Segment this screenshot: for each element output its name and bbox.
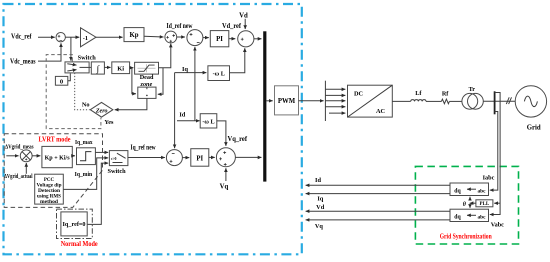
wire Iq_ref=0 to switch2 [87,163,108,224]
converter block DC/AC [348,85,393,117]
wire 0 to switch [68,74,71,81]
wire Lf to Rf [426,100,441,102]
wire PWM to gate bus [299,100,324,102]
wire saturation to switch2 [95,151,108,153]
summing junction S3 [238,31,254,47]
wire PCC detection to switch2 control [63,158,108,190]
wire Ki to dead zone [130,67,134,69]
svg-text:Id_ref new: Id_ref new [167,23,193,30]
svg-text:Grid Synchronization: Grid Synchronization [440,233,492,240]
svg-text:Iabc: Iabc [483,174,495,181]
wire Vq up to S5 [225,168,227,181]
svg-text:Vq: Vq [220,183,229,190]
grid synchronization boundary (green dashed) [415,166,518,244]
grid source circle [515,86,546,117]
wire PI2 to S5 [209,156,215,158]
svg-text:Detection: Detection [38,189,60,194]
svg-text:dq: dq [454,214,461,220]
svg-text:Dead: Dead [140,74,154,81]
svg-text:θ: θ [463,202,467,208]
decision diamond Zero [90,102,113,117]
PCC busbar [494,91,496,114]
wire dotted switch to Zero [75,73,90,110]
summing junction S2 [187,30,203,46]
svg-text:PLL: PLL [480,202,490,207]
svg-text:Grid: Grid [527,125,541,132]
svg-text:Id: Id [179,111,185,118]
svg-text:Kp + Ki/s: Kp + Ki/s [45,156,71,162]
cross-coupling block -wL1 [208,66,230,81]
svg-text:c>0: c>0 [111,157,117,161]
gate signal arrow 1 [325,88,345,90]
svg-text:-ω L: -ω L [202,118,214,125]
svg-text:ΔVgrid_meas: ΔVgrid_meas [5,143,34,150]
switch2 block (LVRT selector) [109,151,128,166]
wire Iq output [306,193,450,195]
wire Iabc tap from busbar [490,112,498,191]
wire Id output [306,184,450,186]
gain block -1 (triangle) [81,28,97,47]
svg-text:Switch: Switch [78,54,97,61]
saturation block [77,148,96,165]
wire switch2 to S4 [128,157,165,159]
inductor Lf [411,100,426,102]
svg-text:Vd: Vd [316,204,325,211]
summing junction S5 (q-axis output) [216,148,235,167]
svg-text:Kp: Kp [129,32,138,39]
wire Ki branch to comparator [132,68,136,94]
gate signal arrow 3 [325,100,345,102]
wire Iq to -wL1 [175,72,207,74]
wire Kp+Ki/s to saturation [72,155,75,157]
summing junction S4 (q-axis error) [166,150,182,166]
PI controller q-axis [191,149,209,167]
wire Id to -wL2 [177,120,200,122]
wire S4 to PI2 [182,157,189,159]
switch block (dc-loop) [65,62,89,73]
dead zone label [140,74,154,88]
svg-text:LVRT mode: LVRT mode [39,136,71,143]
svg-text:Voltage dip: Voltage dip [37,183,62,188]
dead zone block [135,62,159,74]
wire Vgrid_actual up to multiplier [25,163,27,174]
svg-text:Rf: Rf [442,90,449,97]
wire -wL1 up to S3 [230,48,245,73]
wire multiplier to Kp+Ki/s [32,155,40,157]
wire -wL2 down to S5 [217,121,226,146]
svg-text:AC: AC [376,108,386,115]
svg-text:PI: PI [196,156,203,163]
PCC voltage dip detection block [35,174,64,205]
svg-text:No: No [82,101,90,108]
wire S5 to reference bus [235,156,261,158]
svg-text:Vabc: Vabc [491,221,504,228]
wire theta up to dq1 [469,197,471,200]
abc-to-dq block currents [450,183,489,196]
three-phase slashes [506,97,511,104]
wire Kp to sum S1 [144,35,164,38]
svg-text:Iq_ref new: Iq_ref new [131,144,156,151]
controller boundary box (cyan dash-dot) [4,4,302,254]
wire dead-zone branch to comparator [158,68,163,95]
summing junction S0 [56,33,65,42]
wire S3 to reference bus [254,38,262,40]
wire Vdc_ref to sum S0 [38,36,55,38]
svg-text:Zero: Zero [95,108,108,114]
wire converter to filter [392,100,410,102]
wire dVgrid_meas to multiplier [6,155,18,157]
reference bus bar [263,31,266,181]
cross-coupling block -wL2 [200,114,217,128]
PLL block [476,200,493,207]
LVRT mode boundary (dashed polygon) [4,134,102,208]
multiplier junction [20,150,32,162]
normal mode boundary (dash-dot box) [57,209,93,238]
wire transformer to grid [483,100,515,102]
svg-text:ΔVgrid_actual: ΔVgrid_actual [4,173,33,180]
svg-text:abc: abc [478,214,487,220]
svg-text:Tr: Tr [469,86,476,93]
transformer Tr [462,93,483,109]
wire PLL to theta [470,202,476,204]
PWM block [275,86,299,115]
wire Vq output [306,219,450,221]
svg-text:abc: abc [478,188,487,194]
abc-to-dq block voltages [450,209,489,221]
wire Vabc branch to PLL [494,202,500,204]
resistor Rf [441,99,449,104]
gain block Kp [124,28,144,42]
constant block Iq_ref=0 [61,212,87,236]
comparator block [138,87,156,98]
gate signal arrow 4 [325,106,345,108]
svg-text:Yes: Yes [104,119,114,126]
svg-text:using RMS: using RMS [37,194,61,199]
wire PI1 to S3 [229,38,236,40]
svg-text:Iq_min: Iq_min [75,171,93,178]
gate signal arrow 5 [329,112,345,114]
wire S2 to PI1 [203,37,209,39]
svg-text:Iq_max: Iq_max [75,139,93,146]
wire integrator to Ki [104,66,110,68]
summing junction S1 [165,31,177,43]
svg-text:Switch: Switch [107,168,126,175]
wire Vd down to S3 [244,19,246,29]
svg-text:PCC: PCC [44,178,55,183]
svg-text:Normal Mode: Normal Mode [61,241,98,248]
svg-text:-1: -1 [83,35,88,42]
svg-text:Vdc_meas: Vdc_meas [10,57,36,65]
wire dead zone up to S1 [159,44,171,68]
constant 0 block [55,76,67,85]
wire Vd output [306,210,450,212]
svg-text:-ω L: -ω L [213,71,225,78]
gate bus line [324,81,326,121]
svg-text:Vd_ref: Vd_ref [222,23,242,30]
svg-text:dq: dq [454,188,461,194]
wire Iq down to S4 [174,73,176,149]
PI block Kp+Ki/s [42,146,72,167]
svg-text:Vdc_ref: Vdc_ref [11,33,32,41]
gain block Ki [112,62,130,74]
wire dashed zero-feedback loop [46,55,101,129]
svg-text:DC: DC [354,91,364,98]
svg-text:Iq_ref=0: Iq_ref=0 [63,222,86,228]
wire branch down to switch [70,37,72,61]
integrator block [91,62,104,75]
wire switch to integrator [89,66,91,68]
gate signal arrow 2 [325,94,345,96]
PI controller d-axis [210,31,229,47]
wire bus to PWM [266,100,272,102]
wire Vabc tap from busbar [490,93,500,215]
svg-text:Ki: Ki [117,66,124,73]
svg-text:method: method [40,200,58,205]
svg-text:PWM: PWM [278,98,296,105]
svg-text:Vd: Vd [239,13,248,20]
wire comparator to Zero diamond [115,98,147,109]
wire Vdc_meas up to S0 [38,43,61,61]
wire S1 to S2 [177,36,185,38]
svg-text:PI: PI [216,36,223,43]
wire theta down to dq2 [469,207,471,208]
wire Rf to transformer [449,100,462,102]
wire gain to Kp [96,36,123,38]
svg-text:0: 0 [60,79,63,86]
wire Id up to S2 [194,47,196,121]
svg-text:Iq: Iq [317,195,323,202]
wire S0 to gain [65,36,79,38]
svg-text:Iq: Iq [182,66,188,73]
svg-text:Id: Id [315,177,321,184]
svg-text:Vq: Vq [315,223,324,230]
svg-text:Vq_ref: Vq_ref [228,136,248,143]
svg-text:Lf: Lf [415,90,422,97]
